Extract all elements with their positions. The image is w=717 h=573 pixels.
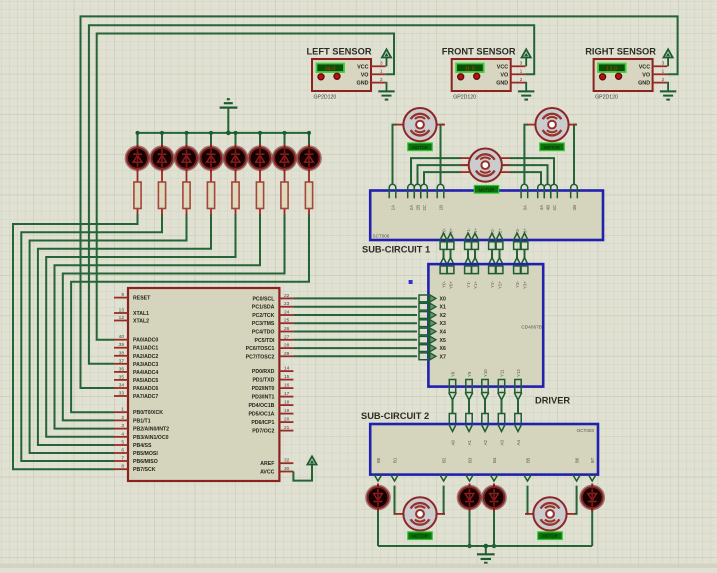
svg-text:PC1/SDA: PC1/SDA: [252, 305, 275, 311]
svg-text:3: 3: [380, 61, 383, 66]
svg-text:29: 29: [284, 351, 290, 357]
svg-text:X1: X1: [440, 305, 446, 311]
svg-text:B0: B0: [376, 457, 381, 463]
svg-text:PA6/ADC6: PA6/ADC6: [133, 386, 158, 392]
svg-text:2: 2: [121, 415, 124, 421]
svg-text:B2: B2: [442, 457, 447, 463]
terminal SC2 pin B3: [466, 457, 474, 481]
motor M5 (bottom right): [525, 497, 575, 530]
svg-text:1B: 1B: [439, 205, 444, 210]
terminal SC2 pin B6: [573, 457, 581, 481]
wire B0 to LED D9 to ground rail: [377, 486, 379, 546]
svg-text:2B: 2B: [416, 205, 421, 210]
svg-text:PD0/RXD: PD0/RXD: [252, 369, 275, 375]
node marker (blue): [409, 280, 413, 284]
svg-text:VO: VO: [642, 72, 650, 78]
label driver pin Y1+: [472, 266, 479, 289]
svg-text:15: 15: [284, 374, 290, 380]
svg-text:B7: B7: [590, 457, 595, 463]
svg-text:PA1/ADC1: PA1/ADC1: [133, 346, 158, 352]
svg-text:3: 3: [662, 61, 665, 66]
svg-text:XTAL2: XTAL2: [133, 319, 149, 325]
led D12: [581, 484, 604, 512]
svg-text:7: 7: [121, 456, 124, 462]
wire B2 to motor M4 right: [444, 486, 445, 514]
terminal SC1 top 4A: [538, 184, 545, 210]
wire/terminal SC1 Y2+ to driver: [496, 228, 504, 266]
svg-text:FRONT SENSOR: FRONT SENSOR: [442, 47, 516, 57]
svg-text:9: 9: [121, 292, 124, 298]
label driver pin Y3+: [521, 266, 528, 289]
sensor RIGHT SENSOR GP2D120: [585, 47, 676, 101]
svg-text:MOTOR: MOTOR: [412, 534, 428, 539]
svg-text:OCT003: OCT003: [577, 428, 595, 433]
svg-text:B6: B6: [575, 457, 580, 463]
wire resistor R2 to PB6: [21, 214, 162, 461]
driver U2 CD4067: [419, 264, 570, 405]
svg-text:PD3/INT1: PD3/INT1: [252, 395, 275, 401]
svg-text:4: 4: [121, 431, 124, 437]
motor M2 (top right): [527, 108, 577, 141]
terminal SC1 top 3A: [521, 184, 528, 210]
svg-text:Y3-: Y3-: [515, 280, 520, 287]
wire resistor R4 to PB4: [38, 214, 211, 445]
terminal SC1 top 1A: [389, 184, 396, 210]
label motor M4: [408, 532, 432, 540]
wire NET-LEFT-SENSOR (PA0 to LEFT sensor VO): [97, 34, 394, 340]
wire AVCC to power: [293, 465, 312, 481]
svg-text:14: 14: [284, 366, 290, 372]
motor M3 (middle): [460, 149, 510, 182]
wire B1 to motor M4 left: [395, 486, 396, 514]
motor M4 (bottom left): [395, 497, 445, 530]
wire driver Y8 to SC2 A0: [449, 371, 457, 424]
svg-text:18: 18: [284, 400, 290, 406]
svg-text:3B: 3B: [572, 205, 577, 210]
terminal SC1 top 2C: [421, 184, 428, 210]
wire PC3 to driver X3: [293, 322, 417, 324]
wire PC0 to driver X0: [293, 297, 417, 299]
svg-text:Y11: Y11: [500, 369, 505, 377]
wire/terminal SC1 Y0+ to driver: [447, 228, 455, 266]
svg-text:AVCC: AVCC: [260, 470, 275, 476]
svg-text:PD4/OC1B: PD4/OC1B: [248, 403, 274, 409]
led D8: [297, 144, 320, 172]
resistor R3: [183, 168, 190, 215]
svg-text:25: 25: [284, 318, 290, 324]
svg-text:23: 23: [284, 301, 290, 307]
svg-text:CD4067B: CD4067B: [521, 325, 542, 331]
wire middle motor M3: [411, 158, 554, 184]
svg-text:VO: VO: [361, 72, 369, 78]
svg-text:20: 20: [284, 417, 290, 423]
svg-text:PA5/ADC5: PA5/ADC5: [133, 378, 158, 384]
svg-text:PB0/T0/XCK: PB0/T0/XCK: [133, 410, 163, 416]
svg-text:Y1-: Y1-: [466, 280, 471, 287]
svg-text:34: 34: [119, 383, 125, 389]
label motor M1: [408, 143, 432, 151]
svg-text:33: 33: [119, 391, 125, 397]
svg-text:Y9: Y9: [467, 371, 472, 377]
label driver pin Y2-: [489, 266, 496, 288]
svg-text:PA0/ADC0: PA0/ADC0: [133, 338, 158, 344]
svg-text:PD2/INT0: PD2/INT0: [252, 386, 275, 392]
sub-circuit SUB-CIRCUIT 1: [362, 191, 603, 255]
resistor R4: [207, 168, 214, 215]
svg-text:RIGHT SENSOR: RIGHT SENSOR: [585, 47, 656, 57]
power VCC arrow (AVCC): [307, 456, 316, 464]
svg-text:1: 1: [121, 407, 124, 413]
terminal SC2 pin B1: [391, 457, 399, 481]
svg-text:X0: X0: [440, 296, 446, 302]
led D4: [199, 144, 222, 172]
svg-text:A2: A2: [483, 439, 488, 445]
sensor LEFT SENSOR GP2D120: [306, 47, 394, 101]
label driver pin Y0+: [447, 266, 454, 289]
svg-text:3: 3: [121, 423, 124, 429]
svg-text:Y2-: Y2-: [490, 280, 495, 287]
svg-text:VO: VO: [500, 72, 508, 78]
svg-text:37: 37: [119, 358, 125, 364]
svg-text:4A: 4A: [539, 205, 544, 210]
svg-text:6: 6: [121, 448, 124, 454]
svg-text:PC0/SCL: PC0/SCL: [252, 296, 275, 302]
resistor R2: [158, 168, 165, 215]
svg-text:VCC: VCC: [497, 64, 508, 70]
svg-text:X7: X7: [440, 354, 446, 360]
led D9: [366, 484, 389, 512]
svg-text:PC4/TDO: PC4/TDO: [252, 330, 274, 336]
svg-text:PB7/SCK: PB7/SCK: [133, 467, 156, 473]
sub-circuit SUB-CIRCUIT 2: [361, 411, 598, 475]
svg-text:B3: B3: [468, 457, 473, 463]
svg-text:24: 24: [284, 310, 290, 316]
svg-text:PA4/ADC4: PA4/ADC4: [133, 370, 158, 376]
label SC2 pin A2: [481, 424, 489, 445]
svg-text:PC2/TCK: PC2/TCK: [252, 313, 274, 319]
wire bottom ground rail: [378, 545, 592, 547]
wire/terminal SC1 Y1+ to driver: [471, 228, 479, 266]
terminal SC2 pin B0: [374, 457, 382, 481]
wire NET-RIGHT-SENSOR (PA6 to RIGHT sensor VO): [81, 16, 678, 388]
svg-text:X5: X5: [440, 338, 446, 344]
svg-text:26: 26: [284, 326, 290, 332]
wire B6 to motor M5 right: [575, 486, 577, 514]
terminal SC2 pin B4: [490, 457, 498, 481]
svg-text:39: 39: [119, 342, 125, 348]
svg-text:3A: 3A: [522, 205, 527, 210]
svg-text:PB4/SS: PB4/SS: [133, 443, 152, 449]
svg-text:2A: 2A: [409, 205, 414, 210]
label motor M3: [474, 186, 498, 194]
wire B7 to LED D12 to rail: [591, 486, 593, 546]
label driver pin Y1-: [465, 266, 472, 288]
led D2: [150, 144, 173, 172]
svg-text:AREF: AREF: [260, 461, 274, 467]
svg-text:SCT006: SCT006: [373, 234, 390, 239]
svg-text:16: 16: [284, 383, 290, 389]
svg-text:PC7/TOSC2: PC7/TOSC2: [246, 354, 275, 360]
wire PC6 to driver X6: [293, 347, 417, 349]
svg-text:27: 27: [284, 334, 290, 340]
svg-text:2: 2: [520, 77, 523, 82]
svg-text:DRIVER: DRIVER: [535, 396, 570, 406]
label SC2 pin A4: [514, 424, 522, 445]
svg-text:B1: B1: [393, 457, 398, 463]
svg-text:A0: A0: [451, 439, 456, 445]
svg-text:GND: GND: [496, 81, 508, 87]
wire/terminal SC1 Y1- to driver: [464, 227, 472, 265]
svg-text:Y3+: Y3+: [523, 281, 528, 289]
svg-text:X6: X6: [440, 346, 446, 352]
svg-text:Y0-: Y0-: [442, 280, 447, 287]
label driver pin Y3-: [514, 266, 521, 288]
svg-text:PB3/AIN1/OC0: PB3/AIN1/OC0: [133, 435, 169, 441]
svg-text:MOTOR: MOTOR: [544, 145, 560, 150]
svg-text:VCC: VCC: [357, 64, 368, 70]
svg-text:MOTOR: MOTOR: [479, 187, 495, 192]
terminal SC2 pin B5: [524, 457, 532, 481]
svg-text:5: 5: [121, 440, 124, 446]
wire driver Y10 to SC2 A2: [481, 369, 489, 424]
wire/terminal SC1 Y3- to driver: [513, 227, 521, 265]
svg-text:1: 1: [662, 69, 665, 74]
wire B3 to LED D10 to rail: [467, 486, 471, 549]
terminal SC2 pin B2: [440, 457, 448, 481]
wire/terminal SC1 Y3+ to driver: [521, 228, 529, 266]
svg-text:PB6/MISO: PB6/MISO: [133, 459, 158, 465]
svg-text:PC5/TDI: PC5/TDI: [255, 338, 275, 344]
label SC2 pin A0: [449, 424, 457, 445]
resistor R5: [232, 168, 239, 215]
led D5: [224, 144, 247, 172]
resistor R8: [305, 168, 312, 215]
svg-text:PA7/ADC7: PA7/ADC7: [133, 394, 158, 400]
wire/terminal SC1 Y2- to driver: [488, 227, 496, 265]
wire PC1 to driver X1: [293, 306, 417, 308]
svg-text:Y0+: Y0+: [449, 281, 454, 289]
wire B5 to motor M5 left: [526, 486, 528, 514]
wire resistor R1 to PB7: [13, 214, 138, 469]
svg-text:MOTOR: MOTOR: [412, 145, 428, 150]
resistor R1: [134, 168, 141, 215]
svg-text:XTAL1: XTAL1: [133, 311, 149, 317]
svg-text:40: 40: [119, 334, 125, 340]
svg-text:17: 17: [284, 391, 290, 397]
svg-text:13.0: 13.0: [606, 66, 617, 72]
svg-text:B5: B5: [526, 457, 531, 463]
wire right motor M2: [524, 125, 576, 185]
label driver pin Y2+: [496, 266, 503, 289]
label motor M5: [538, 532, 562, 540]
led D6: [248, 144, 271, 172]
svg-text:B4: B4: [492, 457, 497, 463]
wire resistor R3 to PB5: [30, 214, 187, 453]
svg-text:4B: 4B: [546, 205, 551, 210]
motor M1 (top left): [395, 108, 445, 141]
svg-text:LEFT SENSOR: LEFT SENSOR: [306, 47, 371, 57]
wire PC2 to driver X2: [293, 314, 417, 316]
wire driver Y11 to SC2 A3: [498, 369, 506, 424]
svg-text:X3: X3: [440, 321, 446, 327]
terminal SC1 top 4B: [544, 184, 551, 210]
terminal SC1 top 2A: [408, 184, 415, 210]
svg-text:1: 1: [380, 69, 383, 74]
svg-text:RESET: RESET: [133, 296, 151, 302]
terminal SC1 top 4C: [551, 184, 558, 210]
bottom edge shading: [0, 564, 717, 569]
terminal SC1 top 1B: [437, 184, 444, 210]
svg-text:22: 22: [284, 293, 290, 299]
led D3: [175, 144, 198, 172]
svg-text:2: 2: [380, 77, 383, 82]
svg-text:GP2D120: GP2D120: [453, 94, 476, 100]
svg-text:4C: 4C: [552, 205, 557, 211]
wire left motor M1: [393, 125, 445, 185]
sensor FRONT SENSOR GP2D120: [442, 47, 535, 101]
svg-text:PA2/ADC2: PA2/ADC2: [133, 354, 158, 360]
mcu U1 ATmega16: [114, 288, 293, 481]
svg-text:PC3/TMS: PC3/TMS: [252, 321, 275, 327]
terminal SC2 pin B7: [588, 457, 596, 481]
terminal SC1 top 2B: [414, 184, 421, 210]
svg-text:GND: GND: [638, 81, 650, 87]
svg-text:A1: A1: [467, 439, 472, 445]
svg-text:28: 28: [284, 343, 290, 349]
wire PC7 to driver X7: [293, 355, 417, 357]
wire LED supply rail: [136, 131, 312, 145]
label SC2 pin A3: [498, 424, 506, 445]
label motor M2: [540, 143, 564, 151]
resistor R6: [256, 168, 263, 215]
wire NET-FRONT-SENSOR (PA3 to FRONT sensor VO): [89, 25, 534, 364]
svg-text:PB5/MOSI: PB5/MOSI: [133, 451, 158, 457]
svg-text:8: 8: [121, 464, 124, 470]
svg-text:Y2+: Y2+: [498, 281, 503, 289]
svg-text:GP2D120: GP2D120: [314, 94, 337, 100]
svg-text:Y1+: Y1+: [473, 281, 478, 289]
svg-text:PB1/T1: PB1/T1: [133, 418, 151, 424]
svg-text:11.0: 11.0: [464, 66, 474, 72]
svg-text:36: 36: [119, 366, 125, 372]
terminal SC1 top 3B: [571, 184, 578, 210]
svg-text:PD7/OC2: PD7/OC2: [252, 429, 274, 435]
led D11: [482, 484, 505, 512]
svg-text:2: 2: [662, 77, 665, 82]
svg-text:2C: 2C: [422, 205, 427, 211]
svg-text:PC6/TOSC1: PC6/TOSC1: [246, 346, 275, 352]
svg-text:21: 21: [284, 425, 290, 431]
svg-text:GP2D120: GP2D120: [595, 94, 618, 100]
svg-text:13: 13: [119, 308, 125, 314]
svg-text:SUB-CIRCUIT 1: SUB-CIRCUIT 1: [362, 245, 430, 255]
svg-text:Y10: Y10: [483, 369, 488, 377]
resistor R7: [281, 168, 288, 215]
svg-text:PA3/ADC3: PA3/ADC3: [133, 362, 158, 368]
svg-text:GND: GND: [357, 81, 369, 87]
svg-text:1: 1: [520, 69, 523, 74]
wire resistor R6 to PB2: [55, 214, 261, 429]
wire driver Y9 to SC2 A1: [465, 371, 473, 424]
svg-text:A3: A3: [500, 439, 505, 445]
ground (top, LED rail): [220, 99, 238, 135]
svg-text:38: 38: [119, 350, 125, 356]
svg-text:A4: A4: [516, 439, 521, 445]
wire PC5 to driver X5: [293, 339, 417, 341]
svg-text:PB2/AIN0/INT2: PB2/AIN0/INT2: [133, 427, 169, 433]
svg-text:Y8: Y8: [451, 371, 456, 377]
wire/terminal SC1 Y0- to driver: [440, 227, 448, 265]
svg-text:30: 30: [284, 466, 290, 472]
led D10: [458, 484, 481, 512]
svg-text:34.0: 34.0: [325, 66, 336, 72]
wire B4 to LED D11 to rail: [492, 486, 496, 549]
svg-text:X2: X2: [440, 313, 446, 319]
wire resistor R8 to PB0: [71, 214, 309, 412]
label driver pin Y0-: [440, 266, 447, 288]
wire resistor R5 to PB3: [46, 214, 235, 437]
wire PC4 to driver X4: [293, 331, 417, 333]
led D1: [126, 144, 149, 172]
svg-text:Y12: Y12: [516, 369, 521, 377]
svg-text:PD1/TXD: PD1/TXD: [252, 378, 274, 384]
svg-text:X4: X4: [440, 330, 446, 336]
svg-text:32: 32: [284, 458, 290, 464]
svg-text:PD6/ICP1: PD6/ICP1: [251, 420, 274, 426]
svg-text:19: 19: [284, 408, 290, 414]
svg-text:PD5/OC1A: PD5/OC1A: [248, 412, 274, 418]
svg-text:35: 35: [119, 374, 125, 380]
svg-text:3: 3: [520, 61, 523, 66]
svg-text:SUB-CIRCUIT 2: SUB-CIRCUIT 2: [361, 411, 429, 421]
wire driver Y12 to SC2 A4: [514, 369, 522, 424]
svg-text:MOTOR: MOTOR: [542, 534, 558, 539]
wire resistor R7 to PB1: [63, 214, 285, 420]
svg-text:VCC: VCC: [639, 64, 650, 70]
svg-text:12: 12: [119, 315, 125, 321]
label SC2 pin A1: [465, 424, 473, 445]
led D7: [273, 144, 296, 172]
svg-text:1A: 1A: [391, 205, 396, 210]
ground (bottom rail): [477, 544, 495, 563]
